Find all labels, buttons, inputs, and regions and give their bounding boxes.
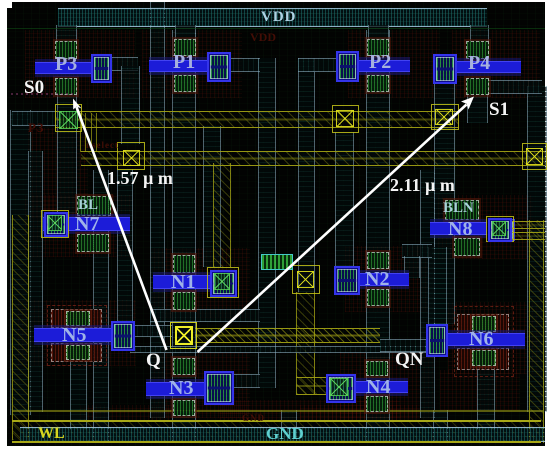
implant region bbox=[25, 30, 135, 98]
wire yellow stub rails left a bbox=[80, 113, 86, 152]
wire WL yellow left vertical bbox=[12, 215, 29, 440]
wire VDD stub P3 bbox=[56, 25, 77, 41]
wire via2 to N5 bbox=[117, 169, 133, 321]
label S1 bbox=[489, 99, 509, 121]
implant region bbox=[440, 370, 520, 410]
label Q bbox=[146, 350, 161, 372]
via Q bbox=[170, 322, 197, 349]
wire P4 source route bbox=[488, 80, 542, 94]
junction box Q bus bbox=[261, 254, 293, 270]
ghost red GND bbox=[242, 413, 265, 423]
wire WL hatch band bbox=[12, 422, 541, 441]
wire N8 to N2 route bbox=[402, 244, 432, 258]
wire N8 yellow out b bbox=[512, 232, 545, 240]
transistor N4 + via bbox=[366, 361, 388, 376]
implant region bbox=[18, 300, 136, 366]
wire x95 column bbox=[93, 170, 109, 443]
via rail B right bbox=[522, 143, 547, 170]
label S0 bbox=[24, 77, 44, 99]
wire P3 drain route bbox=[107, 57, 138, 71]
wire P3 poly column down bbox=[57, 93, 77, 213]
wire left inner teal bbox=[28, 151, 43, 412]
wire P2 drain route bbox=[298, 58, 338, 72]
wire P1 drain route bbox=[228, 58, 260, 72]
wire right NMOS poly column bbox=[366, 30, 390, 443]
label GND bbox=[266, 424, 304, 444]
wire VDD stub P1 bbox=[175, 25, 196, 39]
transistor N2 bbox=[367, 252, 389, 269]
ghost red left bbox=[28, 120, 44, 136]
implant region bbox=[220, 400, 400, 422]
via S0 on rail A bbox=[55, 104, 82, 132]
implant region bbox=[142, 30, 242, 98]
transistor P2 bbox=[367, 39, 389, 56]
implant region bbox=[300, 405, 420, 421]
transistor P4 bbox=[466, 41, 489, 59]
wire green line top bbox=[7, 28, 545, 29]
wire QN bus bbox=[298, 58, 315, 292]
wire P3 drain drop bbox=[121, 66, 140, 144]
wire P4 box column down bbox=[434, 80, 455, 324]
via rail A mid bbox=[332, 105, 359, 133]
transistor P3 bbox=[55, 41, 77, 59]
wire WL yellow line bottom bbox=[12, 441, 541, 443]
via N2 gate bbox=[292, 265, 320, 294]
implant region bbox=[340, 352, 435, 418]
wire VDD stub P2 bbox=[368, 25, 389, 39]
wire N5 to Q bbox=[132, 325, 172, 337]
implant region bbox=[345, 246, 435, 312]
transistor N5 bbox=[51, 309, 102, 328]
implant region bbox=[452, 30, 540, 98]
wire GND rail bbox=[20, 427, 545, 442]
transistor N6 bbox=[457, 314, 509, 335]
wire yellow stub rails left b bbox=[91, 113, 97, 152]
wire magenta dotted left bbox=[11, 93, 73, 95]
implant outline N5 top bbox=[47, 305, 107, 331]
wire N4 yellow L horizontal bbox=[296, 377, 329, 395]
implant region bbox=[348, 30, 440, 98]
wire N3 drain route bbox=[231, 374, 260, 388]
wire x203 column bbox=[203, 126, 221, 267]
label 2.11 um bbox=[390, 175, 455, 196]
wire yellow N2-N4 drop bbox=[296, 292, 315, 394]
metal box right of N8 via bbox=[505, 219, 515, 241]
wire viaA2 to N2 box bbox=[335, 132, 354, 266]
implant region bbox=[25, 195, 133, 257]
wire rail A yellow bbox=[55, 111, 458, 128]
wire yellow N1 gate drop bbox=[213, 163, 231, 267]
transistor N1 + drain via bbox=[173, 255, 195, 273]
wire Q bus bbox=[258, 58, 276, 388]
wire left teal bus bbox=[10, 110, 31, 415]
wire WL yellow line top bbox=[12, 420, 541, 422]
label 1.57 um bbox=[107, 168, 173, 189]
implant region bbox=[448, 302, 538, 374]
wire P4 poly stub bbox=[467, 93, 488, 123]
via rail B left bbox=[117, 142, 145, 170]
transistor N8 + via bbox=[445, 200, 479, 220]
wire WL yellow right vertical bbox=[529, 220, 544, 443]
wire rail B yellow bbox=[81, 151, 545, 166]
label WL bbox=[38, 425, 65, 443]
transistor P1 bbox=[174, 39, 196, 56]
wire thin green bottom bbox=[12, 410, 543, 412]
implant region bbox=[28, 128, 88, 218]
wire N6 to GND stub bbox=[477, 368, 495, 430]
arrow Q to S1 bbox=[198, 105, 467, 353]
wire Q local bbox=[150, 309, 260, 322]
wire BL vertical bbox=[150, 2, 165, 418]
arrow Q to S0 bbox=[77, 107, 167, 350]
wire via1 to left bus bbox=[12, 111, 57, 126]
via rail A right bbox=[431, 104, 459, 130]
wire Q-QN long bbox=[130, 346, 430, 353]
wire VDD stub P4 bbox=[470, 25, 489, 41]
page margin notch bbox=[7, 2, 12, 8]
wire N6 box route bbox=[380, 339, 426, 352]
wire N8 yellow out a bbox=[512, 221, 545, 229]
wire N8 to N6 connector bbox=[428, 247, 447, 324]
wire GND stub x281 bbox=[281, 410, 297, 443]
label QN bbox=[395, 349, 424, 371]
label VDD bbox=[261, 9, 297, 26]
implant outline N6 bbox=[454, 306, 514, 336]
wire VDD rail bbox=[58, 8, 487, 27]
implant region bbox=[80, 405, 200, 421]
implant region bbox=[150, 352, 250, 418]
ghost red VDD bbox=[250, 30, 276, 45]
wire rail Q yellow bbox=[195, 328, 380, 343]
wire N5 to GND stub bbox=[70, 360, 87, 430]
wire right edge teal bbox=[527, 86, 547, 412]
wire BLN vertical bbox=[420, 170, 435, 418]
transistor N7 + via bbox=[77, 196, 111, 216]
transistor N3 bbox=[173, 358, 195, 375]
implant region bbox=[150, 248, 250, 318]
wire GND stub x433 bbox=[433, 410, 448, 443]
implant region bbox=[438, 195, 533, 259]
wire left NMOS poly column bbox=[172, 30, 196, 443]
